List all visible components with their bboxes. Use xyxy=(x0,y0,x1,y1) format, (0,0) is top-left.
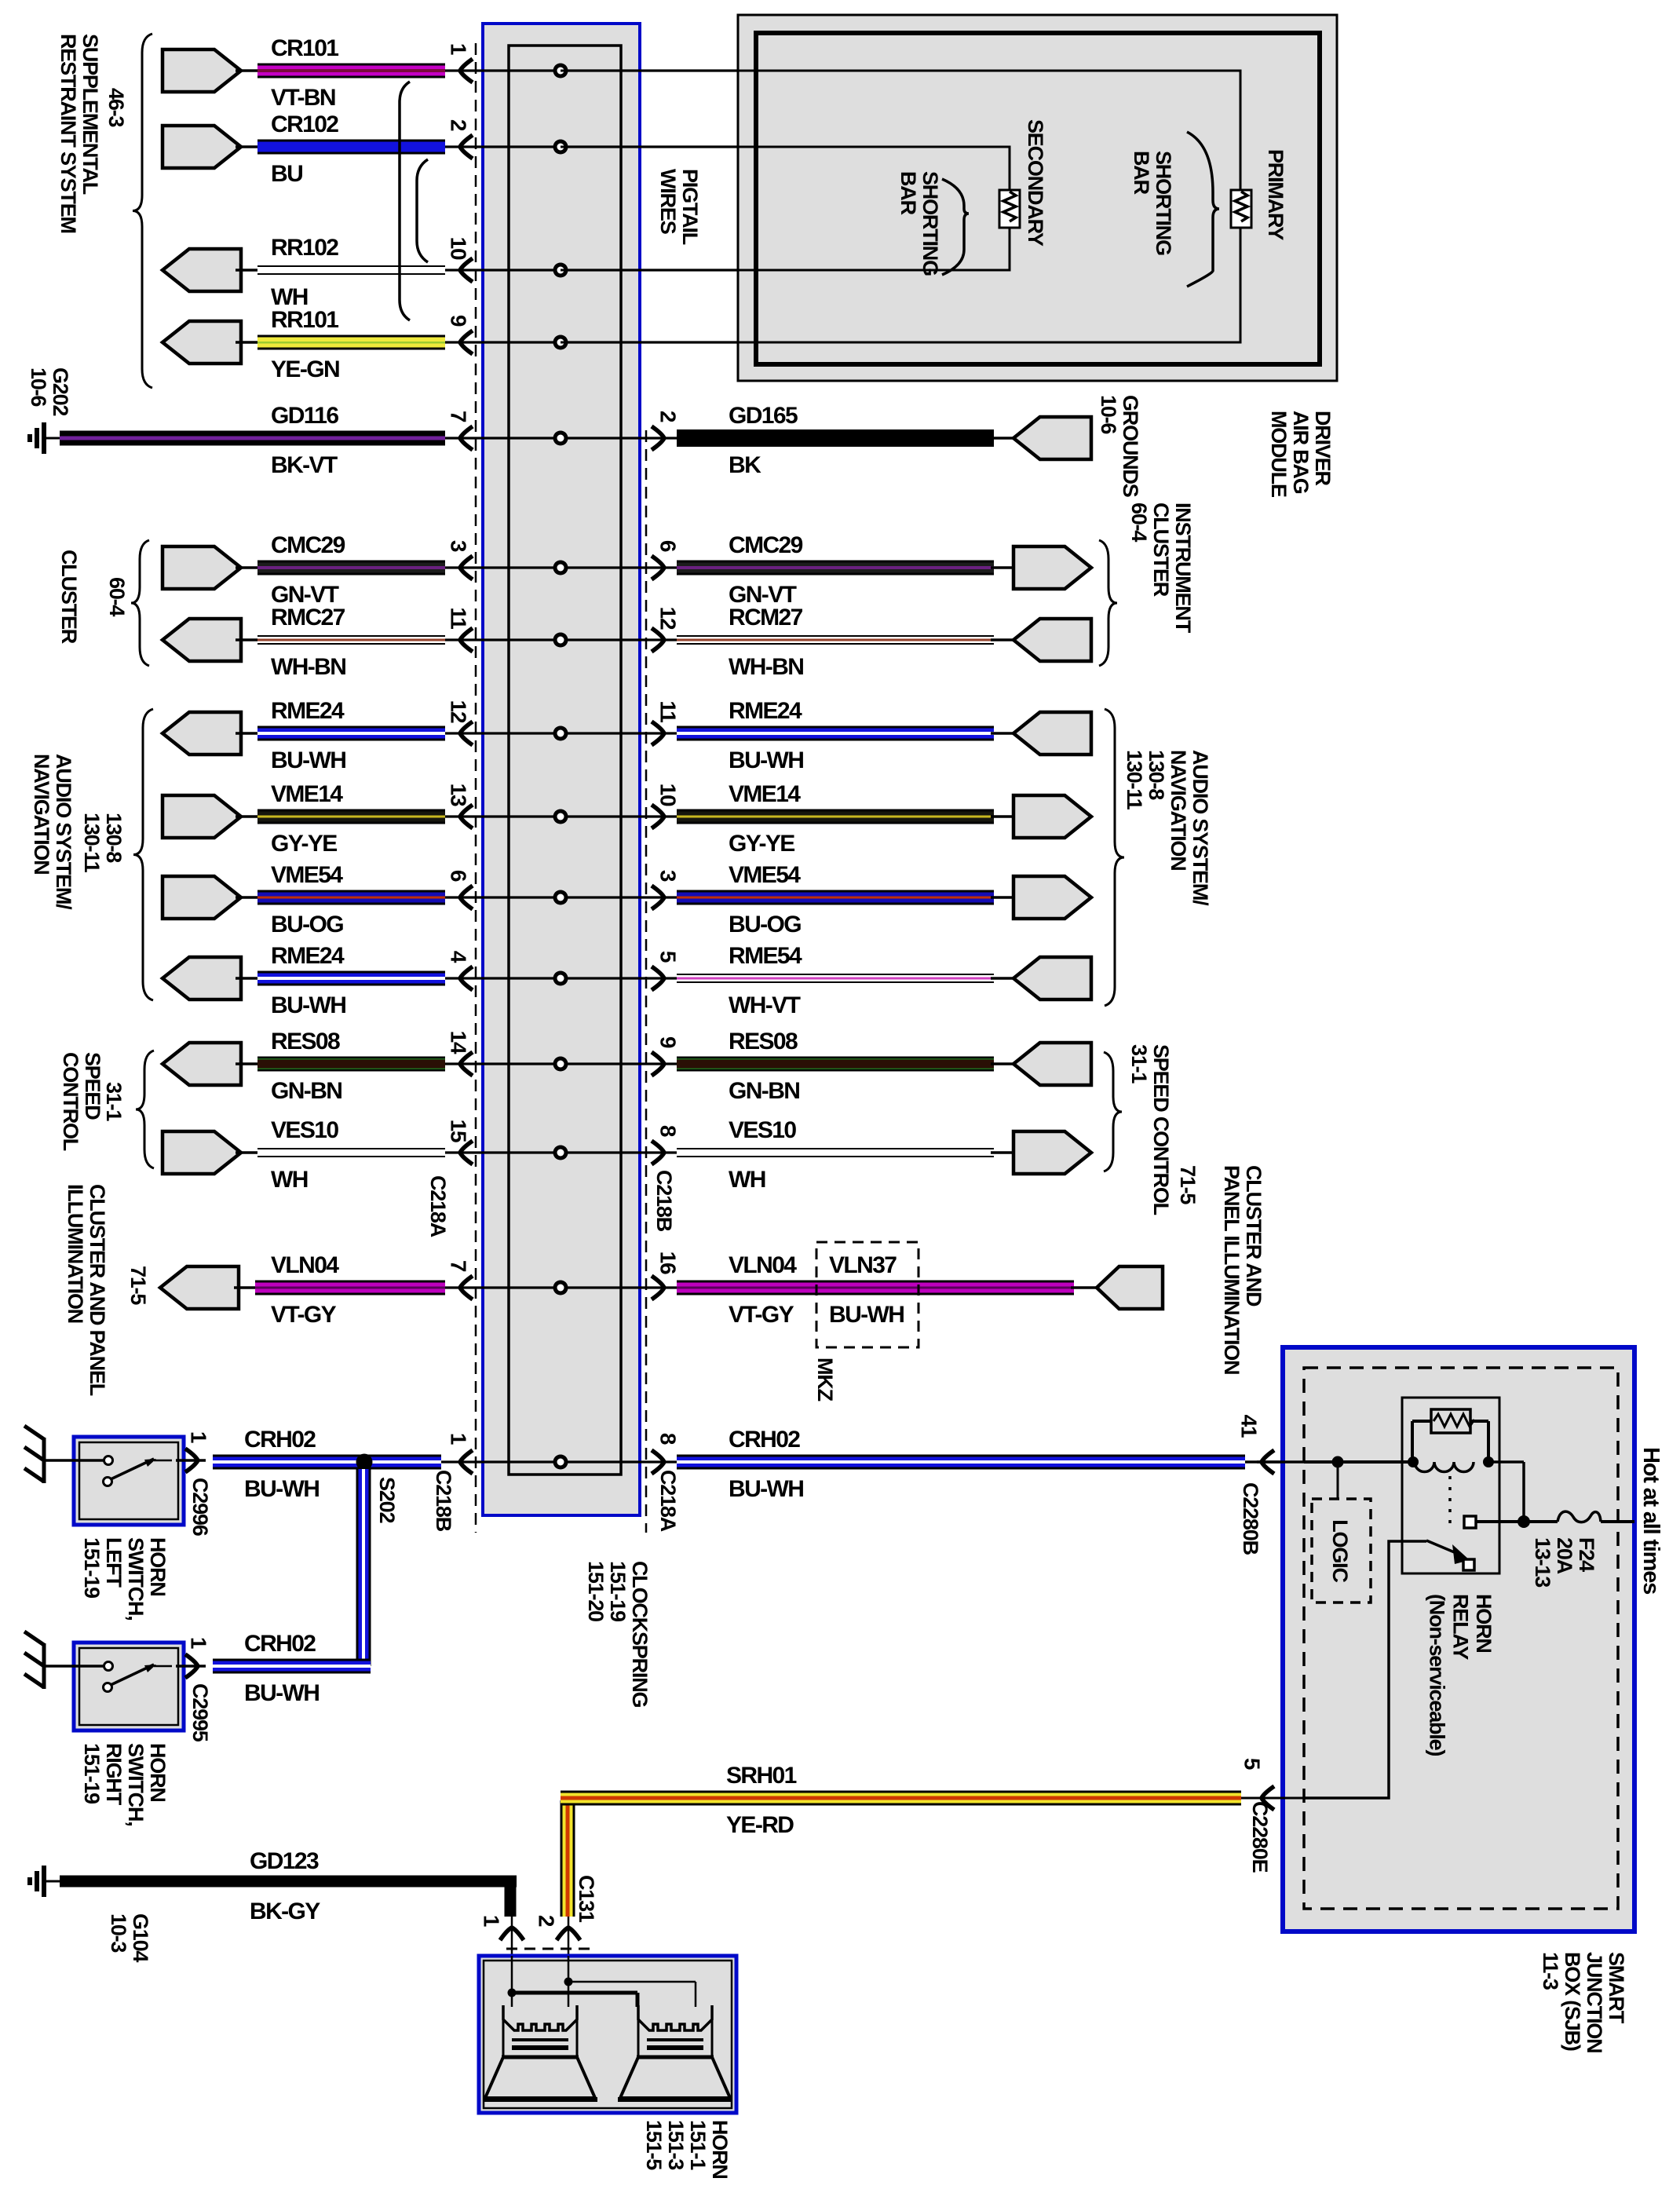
relay supply line xyxy=(1304,1460,1412,1464)
label C218A (left, above VLN04) xyxy=(426,1175,450,1237)
svg-text:C218A: C218A xyxy=(656,1470,680,1532)
left arrow pin 15 (VES10) xyxy=(460,1141,473,1164)
label SHORTING BAR (primary) xyxy=(1130,151,1175,255)
wire ground to horn switch left xyxy=(44,1459,105,1462)
svg-text:C218A: C218A xyxy=(426,1175,450,1237)
wire row VLN04 y=1640 xyxy=(445,1286,677,1288)
pin number 41 xyxy=(1237,1415,1262,1438)
clockspring pin contact CRH02 xyxy=(553,1455,568,1470)
clockspring pin contact row RES08 xyxy=(553,1057,568,1072)
label 46-3 SUPPLEMENTAL RESTRAINT SYSTEM xyxy=(104,88,128,127)
svg-text:BU-WH: BU-WH xyxy=(271,992,345,1018)
connector lug left of RR102 xyxy=(163,249,241,291)
brace AUDIO group (right) xyxy=(1105,709,1124,1006)
svg-text:1: 1 xyxy=(447,43,471,55)
label S202 xyxy=(375,1477,399,1522)
connector lug left of RME24 xyxy=(163,712,241,755)
svg-text:71-5: 71-5 xyxy=(126,1266,150,1305)
svg-text:5: 5 xyxy=(1240,1758,1265,1770)
pin number 1 (C2996) xyxy=(187,1431,211,1443)
svg-text:C2995: C2995 xyxy=(188,1683,212,1742)
svg-text:RR101: RR101 xyxy=(271,307,338,333)
left arrow pin 14 (RES08) xyxy=(460,1052,473,1076)
brace CLUSTER group xyxy=(131,540,149,666)
wire VES10 WH (left) xyxy=(236,1151,259,1154)
wire into horn pin 2 with up arrow xyxy=(568,1917,570,1982)
svg-text:C2280B: C2280B xyxy=(1239,1482,1262,1555)
svg-text:BK-VT: BK-VT xyxy=(271,452,338,478)
relay fixed contact xyxy=(1464,1516,1476,1528)
svg-text:1: 1 xyxy=(447,1433,471,1445)
svg-text:6: 6 xyxy=(656,540,681,552)
wire CRH02 vertical from S202 down xyxy=(356,1469,371,1666)
svg-text:GD165: GD165 xyxy=(729,403,798,429)
svg-text:VME54: VME54 xyxy=(271,862,343,888)
brace INSTRUMENT CLUSTER group xyxy=(1099,540,1117,666)
dashed connector line C131 xyxy=(506,1948,590,1950)
pin number 8 (right) xyxy=(656,1125,681,1137)
wire row RES08 y=1355 xyxy=(445,1062,677,1065)
pin number 5 (right) xyxy=(656,951,681,963)
connector lug right of RME24 xyxy=(991,732,1033,735)
pin number 8 (right) xyxy=(656,1433,681,1445)
svg-text:4: 4 xyxy=(447,951,471,963)
svg-text:9: 9 xyxy=(656,1036,681,1048)
connector lug left of RME24 xyxy=(163,957,241,1000)
right arrow pin 12 (RCM27) xyxy=(652,628,664,652)
horn switch left contacts xyxy=(104,1456,113,1465)
clockspring inner box xyxy=(509,46,621,1475)
svg-text:BK-GY: BK-GY xyxy=(250,1899,320,1924)
svg-text:1: 1 xyxy=(480,1915,504,1927)
svg-text:VLN37: VLN37 xyxy=(829,1252,897,1278)
wire CRH02 BU-WH (right horn switch) xyxy=(213,1659,371,1674)
secondary squib loop xyxy=(561,147,1010,270)
wire RR102 WH (left) xyxy=(236,269,259,272)
horn switch left box xyxy=(74,1437,184,1525)
label G202 10-6 xyxy=(27,367,72,415)
wire VES10 WH (right) xyxy=(677,1148,994,1157)
ground (chassis) at horn switch left xyxy=(42,1438,46,1483)
wire SRH01 YE-RD (horn feed) xyxy=(561,1800,575,1917)
svg-text:2: 2 xyxy=(447,119,471,131)
connector lug left of RMC27 xyxy=(163,619,241,661)
svg-text:BU-WH: BU-WH xyxy=(271,747,345,773)
svg-text:8: 8 xyxy=(656,1125,681,1137)
svg-text:15: 15 xyxy=(447,1120,471,1142)
pin number 12 (left) xyxy=(447,700,471,723)
wire VME54 BU-OG (right) xyxy=(677,890,994,905)
wire row CR101 y=90 xyxy=(445,69,1240,71)
pin number 11 (right) xyxy=(656,700,681,722)
pin number 10 (right) xyxy=(656,784,681,806)
svg-text:BU: BU xyxy=(271,161,302,187)
svg-text:BU-OG: BU-OG xyxy=(271,912,343,937)
svg-text:7: 7 xyxy=(447,1260,471,1272)
right arrow pin 3 (VME54) xyxy=(652,886,664,909)
svg-text:VT-GY: VT-GY xyxy=(271,1302,337,1328)
wire RME24 BU-WH (left) xyxy=(236,732,259,735)
connector lug GROUNDS xyxy=(1097,395,1142,497)
svg-text:BU-WH: BU-WH xyxy=(729,1476,803,1502)
connector lug left of VES10 xyxy=(163,1131,241,1174)
right arrow pin 5 (RME54) xyxy=(652,967,664,990)
wire CR101 VT-BN (left) xyxy=(236,69,259,72)
label C2280E xyxy=(1248,1801,1272,1873)
pin number 16 xyxy=(656,1252,681,1274)
svg-text:12: 12 xyxy=(447,700,471,723)
label INSTRUMENT CLUSTER 60-4 xyxy=(1127,502,1195,634)
svg-text:CMC29: CMC29 xyxy=(271,532,345,558)
horn relay box xyxy=(1402,1398,1499,1573)
svg-text:8: 8 xyxy=(656,1433,681,1445)
svg-text:C218B: C218B xyxy=(652,1170,676,1232)
fuse F24 xyxy=(1524,1520,1558,1523)
horn assembly box xyxy=(479,1956,736,2113)
label G104 10-3 xyxy=(107,1913,152,1962)
relay resistor (parallel) xyxy=(1411,1421,1414,1462)
svg-text:SRH01: SRH01 xyxy=(726,1763,797,1789)
svg-text:BU-WH: BU-WH xyxy=(244,1680,319,1706)
connector lug left of CR102 xyxy=(163,126,241,168)
svg-text:C2280E: C2280E xyxy=(1248,1801,1272,1873)
svg-text:CRH02: CRH02 xyxy=(729,1427,800,1453)
connector lug left of CMC29 xyxy=(163,546,241,589)
label CLOCKSPRING 151-19 151-20 xyxy=(584,1561,652,1708)
wire VLN04/VLN37 (right) xyxy=(677,1281,1074,1296)
wire row RME24 y=1246 xyxy=(445,977,677,979)
label AUDIO SYSTEM/ NAVIGATION 130-8 130-11 (right) xyxy=(1123,750,1212,906)
wire VLN04 VT-GY (left) xyxy=(234,1286,259,1289)
svg-text:WH-VT: WH-VT xyxy=(729,992,801,1018)
svg-text:BU-WH: BU-WH xyxy=(829,1302,904,1328)
clockspring pin contact row VME14 xyxy=(553,809,568,824)
pin number 10 (left) xyxy=(447,237,471,260)
label MKZ xyxy=(813,1358,837,1402)
pin number 14 (left) xyxy=(447,1031,471,1054)
pin number 6 (left) xyxy=(447,870,471,882)
wire row VME14 y=1040 xyxy=(445,815,677,817)
svg-text:GY-YE: GY-YE xyxy=(271,831,337,857)
label C2280B xyxy=(1239,1482,1262,1555)
pin number 1 (left) xyxy=(447,43,471,55)
label 130-8 130-11 AUDIO SYSTEM/ NAVIGATION (left) xyxy=(80,813,126,873)
left arrow pin 10 (RR102) xyxy=(460,258,473,282)
clockspring pin contact row CMC29 xyxy=(553,561,568,576)
primary squib loop xyxy=(561,71,1240,342)
relay switch arm xyxy=(1426,1540,1462,1555)
svg-text:CRH02: CRH02 xyxy=(244,1631,316,1657)
wire RES08 GN-BN (right) xyxy=(677,1057,994,1072)
wire row CR102 y=187 xyxy=(445,145,1010,148)
left arrow pin 4 (RME24) xyxy=(460,967,473,990)
ground G104 xyxy=(42,1866,46,1897)
svg-text:CRH02: CRH02 xyxy=(244,1427,316,1453)
wire row RR102 y=344 xyxy=(445,269,1010,271)
wire CMC29 GN-VT (right) xyxy=(677,561,994,576)
pin number 12 (right) xyxy=(656,607,681,630)
label HORN 151-1 151-3 151-5 xyxy=(642,2120,732,2179)
right arrow pin 10 (VME14) xyxy=(652,805,664,828)
left arrow pin 2 (CR102) xyxy=(460,135,473,159)
left arrow pin 1 (CR101) xyxy=(460,59,473,82)
svg-text:9: 9 xyxy=(447,315,471,327)
svg-text:1: 1 xyxy=(187,1637,211,1649)
connector lug left of CR101 xyxy=(163,49,241,92)
label PIGTAIL WIRES xyxy=(656,169,702,245)
label C131 xyxy=(575,1875,598,1923)
SJB inner dashed box xyxy=(1304,1368,1618,1909)
horn 2 feed wires xyxy=(512,1991,637,1995)
svg-text:PIGTAILWIRES: PIGTAILWIRES xyxy=(656,169,702,245)
connector lug right of VLN04 xyxy=(1071,1286,1099,1289)
svg-text:RCM27: RCM27 xyxy=(729,605,803,630)
svg-text:WH-BN: WH-BN xyxy=(271,654,345,680)
pin number 3 (right) xyxy=(656,870,681,882)
left arrow pin 11 (RMC27) xyxy=(460,628,473,652)
svg-text:7: 7 xyxy=(447,411,471,422)
clockspring pin contact row RR102 xyxy=(553,263,568,278)
wire CRH02 BU-WH (left horn switch to S202 to clockspring) xyxy=(213,1455,441,1470)
left arrow pin 13 (VME14) xyxy=(460,805,473,828)
svg-text:CMC29: CMC29 xyxy=(729,532,803,558)
label LOGIC xyxy=(1328,1519,1352,1582)
connector C218A dashed line (left) xyxy=(475,43,477,1533)
horn 1 feed wires xyxy=(511,1956,513,2007)
connector lug left of RES08 xyxy=(163,1043,241,1085)
label 71-5 CLUSTER AND PANEL ILLUMINATION (left) xyxy=(126,1266,150,1305)
wire row VES10 y=1468 xyxy=(445,1151,677,1153)
horn switch right contacts xyxy=(104,1662,113,1671)
wire row RR101 y=436 xyxy=(445,341,1240,343)
horn switch right box xyxy=(74,1643,184,1730)
connector lug right of RME54 xyxy=(991,977,1033,980)
svg-text:11: 11 xyxy=(656,700,681,722)
svg-text:13: 13 xyxy=(447,784,471,806)
pin number 1 (left) xyxy=(447,1433,471,1445)
relay output to pin 5 xyxy=(1304,1541,1426,1798)
label F24 20A 13-13 xyxy=(1531,1537,1598,1588)
clockspring pin contact row RME24 xyxy=(553,726,568,741)
wire row VME54 y=1143 xyxy=(445,896,677,898)
connector C218B dashed line (right) xyxy=(645,430,648,1533)
clockspring pin contact row RME24 xyxy=(553,971,568,986)
pin number 13 (left) xyxy=(447,784,471,806)
clockspring pin contact row VME54 xyxy=(553,890,568,905)
wire RME24 BU-WH (right) xyxy=(677,726,994,741)
right arrow pin 16 (VLN04) xyxy=(652,1276,664,1299)
svg-text:BK: BK xyxy=(729,452,761,478)
wire RCM27 WH-BN (right) xyxy=(677,635,994,645)
clockspring pin contact row RR101 xyxy=(553,335,568,350)
right arrow pin 8 (VES10) xyxy=(652,1141,664,1164)
label C218B (left, bottom row) xyxy=(432,1470,455,1532)
relay armature dotted link xyxy=(1448,1476,1452,1531)
pin number 11 (left) xyxy=(447,607,471,629)
wire VME14 GY-YE (right) xyxy=(677,809,994,824)
clockspring pin contact row CR101 xyxy=(553,64,568,79)
svg-text:10: 10 xyxy=(656,784,681,806)
wire row CMC29 y=723 xyxy=(445,566,677,568)
connector lug right of RCM27 xyxy=(991,638,1033,641)
label HORN RELAY (Non-serviceable) xyxy=(1426,1594,1496,1756)
label C2995 xyxy=(188,1683,212,1742)
label 31-1 SPEED CONTROL (left) xyxy=(102,1082,126,1121)
svg-text:VME14: VME14 xyxy=(729,781,801,807)
label HORN SWITCH, LEFT 151-19 xyxy=(80,1537,170,1621)
wire RME24 BU-WH (left) xyxy=(236,977,259,980)
brace SRS group xyxy=(133,34,152,388)
svg-text:GD123: GD123 xyxy=(250,1848,319,1874)
left arrow pin 7 (VLN04) xyxy=(460,1276,473,1299)
secondary squib resistor xyxy=(999,190,1020,228)
svg-text:RME54: RME54 xyxy=(729,943,802,969)
clockspring pin contact row RMC27 xyxy=(553,633,568,648)
pin number 7 (left) xyxy=(447,411,471,422)
svg-text:RR102: RR102 xyxy=(271,235,338,261)
left arrow pin 3 (CMC29) xyxy=(460,556,473,579)
svg-text:GY-YE: GY-YE xyxy=(729,831,794,857)
pin number 2 (left) xyxy=(447,119,471,131)
wire row GD116 y=558 xyxy=(445,437,677,439)
svg-text:BU-WH: BU-WH xyxy=(244,1476,319,1502)
svg-text:RMC27: RMC27 xyxy=(271,605,345,630)
connector lug right of RES08 xyxy=(991,1062,1033,1065)
label SHORTING BAR (secondary) xyxy=(897,171,942,276)
svg-text:C2996: C2996 xyxy=(188,1478,212,1537)
pin number 9 (left) xyxy=(447,315,471,327)
svg-text:S202: S202 xyxy=(375,1477,399,1522)
svg-text:RES08: RES08 xyxy=(729,1029,798,1054)
label C218B (right, above VLN04) xyxy=(652,1170,676,1232)
brace SPEED CONTROL group (right) xyxy=(1104,1052,1122,1171)
svg-text:VES10: VES10 xyxy=(271,1117,338,1143)
svg-text:GN-BN: GN-BN xyxy=(271,1078,341,1104)
svg-text:VLN04: VLN04 xyxy=(271,1252,339,1278)
left arrow pin 1 (CRH02) xyxy=(460,1450,473,1474)
svg-text:VES10: VES10 xyxy=(729,1117,796,1143)
svg-text:C218B: C218B xyxy=(432,1470,455,1532)
primary squib resistor xyxy=(1231,190,1251,228)
wire row CRH02 y=1862 xyxy=(440,1460,677,1463)
ground (chassis) at horn switch right xyxy=(42,1643,46,1689)
horn switch left arm xyxy=(111,1459,154,1479)
connector lug left of VME14 xyxy=(163,795,241,838)
splice to LOGIC xyxy=(1332,1456,1344,1468)
pin number 2 (horn) xyxy=(535,1915,559,1927)
svg-text:2: 2 xyxy=(535,1915,559,1927)
arrow out of horn switch left pin 1 xyxy=(176,1459,206,1462)
dashed box VLN37 (MKZ) xyxy=(816,1242,919,1347)
pin number 7 xyxy=(447,1260,471,1272)
svg-text:WH: WH xyxy=(271,1167,308,1193)
right arrow pin 9 (RES08) xyxy=(652,1052,664,1076)
svg-text:RES08: RES08 xyxy=(271,1029,340,1054)
brace AUDIO group (left) xyxy=(133,709,153,1000)
wire RES08 GN-BN (left) xyxy=(236,1062,259,1065)
svg-text:5: 5 xyxy=(656,951,681,963)
wire GD165 BK (right) xyxy=(677,429,994,447)
relay to fuse node xyxy=(1488,1460,1524,1464)
svg-text:2: 2 xyxy=(656,411,681,422)
wire row RME24 y=934 xyxy=(445,732,677,734)
svg-text:CR101: CR101 xyxy=(271,35,338,61)
right arrow pin 11 (RME24) xyxy=(652,722,664,745)
SJB pin 41 arrow xyxy=(1257,1460,1304,1464)
label HORN SWITCH, RIGHT 151-19 xyxy=(80,1743,170,1826)
brace SPEED CONTROL group (left) xyxy=(136,1051,154,1168)
connector lug right of GD165 xyxy=(991,437,1033,440)
connector lug right of VME54 xyxy=(991,896,1016,899)
svg-text:PRIMARY: PRIMARY xyxy=(1264,149,1287,240)
clockspring outer box xyxy=(483,24,640,1515)
driver air bag module inner box xyxy=(756,33,1320,364)
svg-text:RME24: RME24 xyxy=(729,698,802,724)
svg-text:3: 3 xyxy=(447,540,471,552)
svg-text:MKZ: MKZ xyxy=(813,1358,837,1402)
wire CRH02 BU-WH (clockspring to SJB) xyxy=(677,1455,1245,1470)
wire into horn pin 1 with up arrow xyxy=(511,1917,513,1993)
right arrow pin 6 (CMC29) xyxy=(652,556,664,579)
connector lug left of VLN04 xyxy=(160,1266,239,1309)
svg-text:10: 10 xyxy=(447,237,471,260)
label Hot at all times xyxy=(1638,1447,1664,1594)
svg-text:RME24: RME24 xyxy=(271,698,345,724)
horn 2 (speaker symbol) xyxy=(638,2005,712,2056)
left arrow pin 12 (RME24) xyxy=(460,722,473,745)
pin number 5 xyxy=(1240,1758,1265,1770)
svg-text:YE-RD: YE-RD xyxy=(726,1812,794,1838)
clockspring pin contact row VES10 xyxy=(553,1146,568,1160)
pin number 9 (right) xyxy=(656,1036,681,1048)
svg-text:VME14: VME14 xyxy=(271,781,343,807)
wire ground to horn switch right xyxy=(44,1665,105,1668)
pigtail group bracket rows 2-3 xyxy=(417,159,428,262)
svg-text:WH-BN: WH-BN xyxy=(729,654,803,680)
svg-text:VLN04: VLN04 xyxy=(729,1252,797,1278)
wire GD123 BK-GY xyxy=(44,1880,63,1883)
left arrow pin 6 (VME54) xyxy=(460,886,473,909)
svg-text:SECONDARY: SECONDARY xyxy=(1024,119,1047,247)
svg-text:GN-BN: GN-BN xyxy=(729,1078,799,1104)
wire CR102 BU (left) xyxy=(236,145,259,148)
svg-text:16: 16 xyxy=(656,1252,681,1274)
svg-text:VME54: VME54 xyxy=(729,862,801,888)
pin number 3 (left) xyxy=(447,540,471,552)
svg-text:LOGIC: LOGIC xyxy=(1328,1519,1352,1582)
wire VME54 BU-OG (left) xyxy=(236,896,259,899)
wire RMC27 WH-BN (left) xyxy=(236,638,259,641)
label 60-4 CLUSTER xyxy=(105,577,129,616)
svg-text:VT-BN: VT-BN xyxy=(271,85,335,111)
label SPEED CONTROL 31-1 (right) xyxy=(1127,1044,1173,1215)
svg-text:VT-GY: VT-GY xyxy=(729,1302,794,1328)
wire CMC29 GN-VT (left) xyxy=(236,566,259,569)
svg-text:C131: C131 xyxy=(575,1875,598,1923)
svg-text:14: 14 xyxy=(447,1031,471,1054)
pin number 15 (left) xyxy=(447,1120,471,1142)
relay coil xyxy=(1415,1462,1474,1471)
horn switch right arm xyxy=(111,1665,154,1685)
pin number 1 (C2995) xyxy=(187,1637,211,1649)
label C218A (right, bottom row) xyxy=(656,1470,680,1532)
left arrow pin 9 (RR101) xyxy=(460,331,473,354)
svg-text:RME24: RME24 xyxy=(271,943,345,969)
svg-text:CLUSTER: CLUSTER xyxy=(57,550,81,644)
svg-text:6: 6 xyxy=(447,870,471,882)
wire GD116 BK-VT xyxy=(44,437,63,440)
connector lug left of RR101 xyxy=(163,321,241,364)
